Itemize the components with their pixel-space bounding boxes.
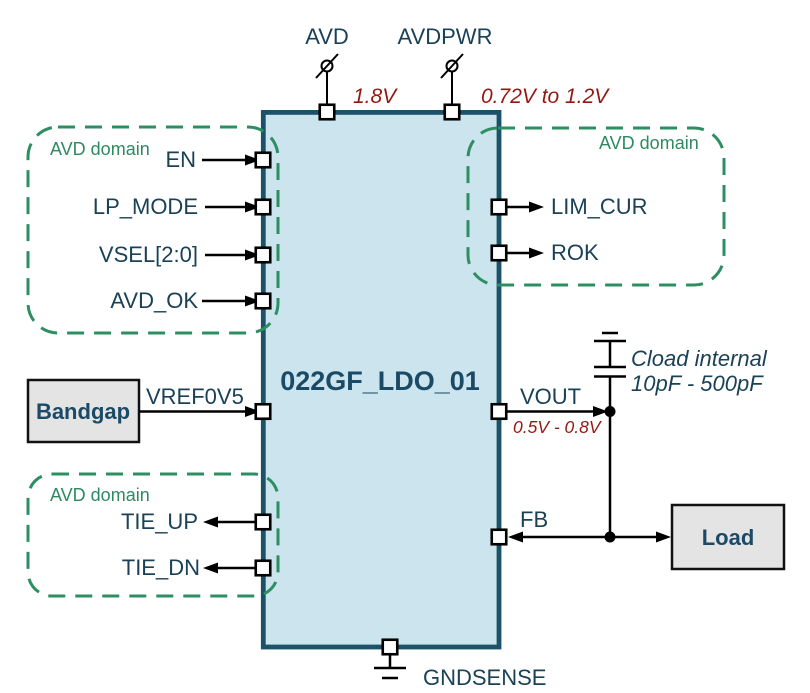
power port AVDPWR xyxy=(441,54,463,104)
svg-text:10pF - 500pF: 10pF - 500pF xyxy=(631,371,764,396)
svg-text:AVDPWR: AVDPWR xyxy=(398,24,493,49)
svg-text:TIE_DN: TIE_DN xyxy=(122,555,200,580)
wire TIE_DN xyxy=(203,563,255,574)
svg-text:LP_MODE: LP_MODE xyxy=(93,194,198,219)
svg-text:EN: EN xyxy=(165,147,196,172)
ground GNDSENSE xyxy=(374,668,406,678)
svg-text:VOUT: VOUT xyxy=(520,384,581,409)
svg-text:Bandgap: Bandgap xyxy=(36,399,130,424)
pin VREF0V5 xyxy=(256,404,271,419)
pin ROK xyxy=(492,246,507,261)
pin GNDSENSE xyxy=(383,640,398,655)
junction VOUT node xyxy=(605,406,616,417)
pin TIE_UP xyxy=(256,515,271,530)
LDO block U1 xyxy=(263,112,499,647)
wire EN xyxy=(202,155,260,166)
svg-text:0.5V - 0.8V: 0.5V - 0.8V xyxy=(513,417,603,437)
svg-text:LIM_CUR: LIM_CUR xyxy=(551,194,648,219)
capacitor Cload net xyxy=(609,341,612,537)
capacitor Cload plates xyxy=(594,367,626,377)
svg-text:0.72V to 1.2V: 0.72V to 1.2V xyxy=(481,85,610,108)
svg-text:GNDSENSE: GNDSENSE xyxy=(423,665,546,690)
pin LIM_CUR xyxy=(492,200,507,215)
pin TIE_DN xyxy=(256,561,271,576)
wire VREF0V5 xyxy=(139,406,260,417)
wire LP_MODE xyxy=(205,202,260,213)
AVD domain box (lower left) xyxy=(28,474,278,596)
pin EN xyxy=(256,153,271,168)
wire ROK xyxy=(507,248,544,259)
svg-text:AVD: AVD xyxy=(305,24,349,49)
pin VOUT xyxy=(492,404,507,419)
svg-text:AVD_OK: AVD_OK xyxy=(110,288,198,313)
pin AVDPWR xyxy=(445,105,460,120)
pin AVD xyxy=(320,105,335,120)
svg-text:AVD domain: AVD domain xyxy=(50,139,150,159)
Bandgap block xyxy=(28,380,139,442)
wire VOUT xyxy=(507,406,608,417)
power port AVD xyxy=(316,54,338,104)
svg-text:AVD domain: AVD domain xyxy=(50,485,150,505)
svg-text:TIE_UP: TIE_UP xyxy=(121,509,198,534)
AVD domain box (right) xyxy=(468,128,724,285)
pin FB xyxy=(492,530,507,545)
ground (top of Cload) xyxy=(594,333,626,341)
AVD domain box (upper left) xyxy=(28,127,278,333)
pin VSEL[2:0] xyxy=(256,248,271,263)
svg-text:Load: Load xyxy=(702,525,755,550)
wire GNDSENSE xyxy=(389,655,392,668)
junction FB node xyxy=(605,532,616,543)
svg-text:FB: FB xyxy=(520,507,548,532)
svg-text:AVD domain: AVD domain xyxy=(599,133,699,153)
wire TIE_UP xyxy=(203,517,255,528)
svg-text:Cload internal: Cload internal xyxy=(631,346,768,371)
svg-text:1.8V: 1.8V xyxy=(353,85,398,108)
pin AVD_OK xyxy=(256,294,271,309)
Load block xyxy=(672,505,784,569)
wire AVD_OK xyxy=(202,296,260,307)
svg-text:ROK: ROK xyxy=(551,240,599,265)
svg-text:VSEL[2:0]: VSEL[2:0] xyxy=(99,242,198,267)
pin LP_MODE xyxy=(256,200,271,215)
wire FB xyxy=(508,532,671,543)
wire VSEL[2:0] xyxy=(205,250,260,261)
svg-text:022GF_LDO_01: 022GF_LDO_01 xyxy=(280,366,480,396)
svg-text:VREF0V5: VREF0V5 xyxy=(146,384,244,409)
wire LIM_CUR xyxy=(507,202,544,213)
